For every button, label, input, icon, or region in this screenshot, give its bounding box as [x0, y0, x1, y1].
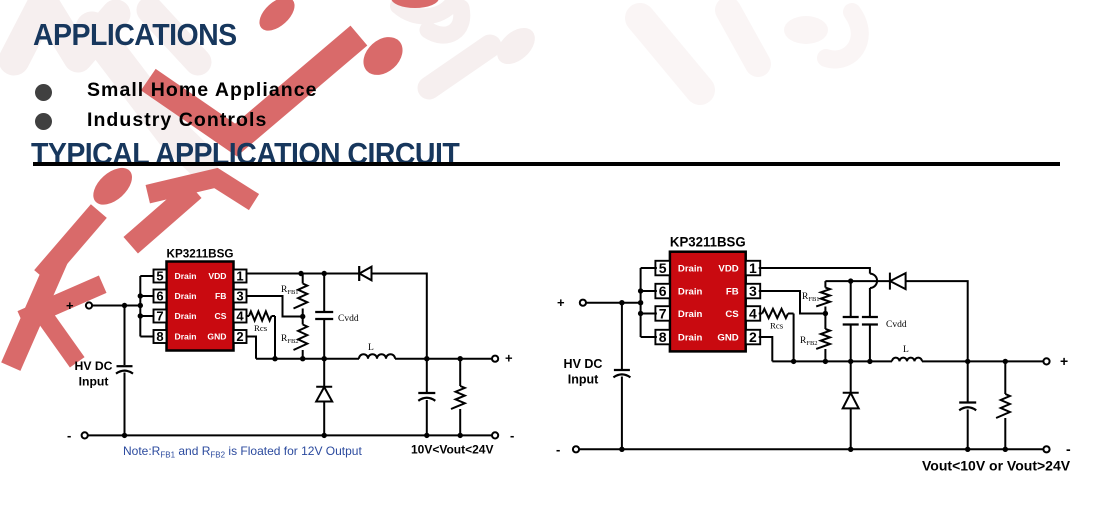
svg-text:-: - — [67, 428, 71, 443]
resistor Rcs right — [759, 309, 794, 318]
pin 4 box — [234, 309, 247, 324]
pin 6 box — [154, 289, 167, 304]
node junction Cvdd-mid — [322, 356, 327, 361]
pin 1 box — [234, 269, 247, 284]
terminal input + right — [580, 300, 586, 306]
svg-text:RFB2: RFB2 — [281, 334, 299, 345]
IC U1 KP3211BSG body — [167, 262, 234, 351]
svg-text:+: + — [1060, 353, 1068, 369]
svg-text:RFB1: RFB1 — [281, 285, 299, 296]
node junction bottom input — [122, 433, 127, 438]
svg-text:-: - — [556, 442, 560, 457]
wire input cap to bottom right — [621, 377, 623, 450]
heading rule — [33, 162, 1060, 166]
pin 4 box — [746, 306, 761, 322]
watermark red letter w low bar — [139, 197, 186, 238]
svg-text:CS: CS — [725, 309, 739, 320]
terminal input - right — [573, 446, 579, 452]
resistor R-load right ckt — [996, 361, 1010, 449]
node junction freewheel-bot — [322, 433, 327, 438]
svg-text:HV DCInput: HV DCInput — [564, 357, 603, 387]
node junction RFB2-mid — [300, 356, 305, 361]
wire freewheel bottom lead — [323, 402, 325, 436]
pin 8 box — [154, 329, 167, 344]
terminal input + — [86, 302, 92, 308]
node junction Cvdd2-mid right — [867, 359, 872, 364]
svg-text:Drain: Drain — [678, 287, 703, 298]
node junction bus input tee right — [638, 300, 643, 305]
wire VDD rail after diode — [372, 274, 427, 359]
wire stub pin5 right — [641, 267, 657, 269]
resistor RFB1 right — [816, 281, 830, 313]
svg-text:Drain: Drain — [678, 309, 703, 320]
diode D3 right ckt — [890, 273, 906, 290]
node junction CS-mid — [272, 356, 277, 361]
terminal input - — [82, 432, 88, 438]
wire stub pin5 — [140, 275, 154, 277]
diode D1 buck top — [359, 266, 371, 281]
bullet 1 — [35, 84, 52, 101]
svg-text:5: 5 — [156, 269, 163, 284]
wire Cout bottom lead right — [967, 410, 969, 450]
svg-text:1: 1 — [236, 269, 243, 284]
wire input cap branch — [124, 306, 126, 366]
node junction RFB2-mid right — [823, 359, 828, 364]
resistor R-load left ckt — [451, 359, 465, 436]
node junction FB divider mid right — [823, 311, 828, 316]
watermark red letter i2 dot — [253, 0, 300, 37]
IC U1 KP3211BSG body — [670, 252, 746, 352]
node junction Cout-bot — [424, 433, 429, 438]
svg-text:FB: FB — [215, 291, 226, 301]
wire Cout top lead — [426, 359, 428, 393]
wire HV + input — [89, 305, 140, 307]
capacitor C-out right — [959, 403, 976, 411]
wire mid rail after L — [395, 358, 495, 360]
node junction bus pin6 right — [638, 288, 643, 293]
wire GND pin down — [246, 337, 257, 359]
wire stub pin6 right — [641, 290, 657, 292]
svg-text:8: 8 — [156, 329, 163, 344]
diode D2 freewheel — [316, 387, 332, 402]
capacitor Cvdd1 — [843, 317, 859, 325]
node junction bus pin7 — [138, 313, 143, 318]
wire drain bus left ckt — [139, 276, 141, 337]
svg-text:Rcs: Rcs — [770, 321, 784, 331]
svg-text:VDD: VDD — [718, 264, 738, 275]
svg-text:4: 4 — [236, 309, 244, 324]
svg-text:+: + — [557, 295, 565, 310]
svg-text:GND: GND — [717, 333, 738, 344]
svg-text:7: 7 — [156, 309, 163, 324]
node junction bottom input right — [619, 447, 624, 452]
wire input cap branch right — [621, 303, 623, 369]
svg-text:3: 3 — [236, 289, 243, 304]
heading TYPICAL APPLICATION CIRCUIT — [31, 136, 459, 172]
inductor L2 — [892, 358, 922, 362]
node junction Dtop-mid — [424, 356, 429, 361]
wire Cvdd1 bottom lead — [850, 325, 852, 362]
svg-text:3: 3 — [749, 283, 757, 299]
wire freewheel top lead right — [850, 361, 852, 392]
watermark red letter w main V — [159, 44, 349, 140]
node junction input cap tap right — [619, 300, 624, 305]
watermark red letter i dot — [87, 161, 139, 212]
wire mid rail right ckt — [772, 360, 892, 362]
node junction freewheel-bot right — [848, 447, 853, 452]
pin 5 box — [655, 260, 670, 276]
svg-text:Drain: Drain — [175, 271, 197, 281]
svg-text:+: + — [505, 351, 513, 366]
node junction CS-mid right — [791, 359, 796, 364]
svg-text:10V<Vout<24V: 10V<Vout<24V — [411, 443, 494, 457]
svg-text:2: 2 — [749, 329, 757, 345]
svg-text:RFB1: RFB1 — [802, 292, 820, 303]
resistor Rcs — [246, 311, 276, 320]
svg-text:7: 7 — [659, 306, 667, 322]
node junction bus input tee — [138, 303, 143, 308]
wire GND pin down right — [759, 337, 773, 361]
heading APPLICATIONS — [33, 17, 237, 53]
wire stub pin7 right — [641, 313, 657, 315]
pin 2 box — [746, 329, 761, 345]
wire Cout top lead right — [967, 361, 969, 402]
svg-text:GND: GND — [207, 332, 226, 342]
svg-text:Note:RFB1 and RFB2 is Floated: Note:RFB1 and RFB2 is Floated for 12V Ou… — [123, 444, 362, 460]
capacitor C-in HV — [116, 366, 133, 373]
capacitor C-in HV right — [613, 370, 630, 377]
watermark light fragment top-left — [14, 2, 202, 162]
wire stub pin6 — [140, 295, 154, 297]
svg-text:6: 6 — [156, 289, 163, 304]
svg-text:+: + — [66, 298, 74, 313]
node junction Cout-bot right — [965, 447, 970, 452]
node junction load-bot — [458, 433, 463, 438]
inductor L1 — [359, 354, 395, 359]
node junction bus pin6 — [138, 293, 143, 298]
pin 7 box — [154, 309, 167, 324]
node junction load-bot right — [1003, 447, 1008, 452]
wire input cap to bottom rail — [124, 373, 126, 436]
svg-text:RFB2: RFB2 — [800, 336, 818, 347]
diode D4 freewheel right — [843, 393, 859, 409]
pin 6 box — [655, 283, 670, 299]
svg-text:KP3211BSG: KP3211BSG — [670, 234, 746, 250]
svg-text:Cvdd: Cvdd — [886, 320, 907, 330]
svg-text:Drain: Drain — [175, 311, 197, 321]
svg-text:Rcs: Rcs — [254, 323, 268, 333]
bullet item Industry Controls — [87, 109, 267, 132]
wire bottom rail left ckt — [85, 434, 495, 436]
svg-text:8: 8 — [659, 329, 667, 345]
watermark light fragment S dot and bar — [398, 4, 542, 88]
svg-text:FB: FB — [726, 287, 739, 298]
resistor RFB2 right — [816, 314, 830, 362]
node junction VDD-Cvdd — [322, 271, 327, 276]
svg-text:KP3211BSG: KP3211BSG — [167, 247, 234, 261]
wire CS branch down — [274, 316, 276, 359]
node junction FB divider mid — [300, 314, 305, 319]
wire VDD rail — [246, 273, 360, 275]
svg-text:-: - — [1066, 441, 1071, 457]
svg-text:2: 2 — [236, 329, 243, 344]
svg-text:4: 4 — [749, 306, 757, 322]
node junction bus pin7 right — [638, 311, 643, 316]
wire Cvdd bottom lead — [323, 319, 325, 358]
wire Cvdd top lead — [323, 274, 325, 312]
pin 1 box — [746, 260, 761, 276]
wire freewheel bottom lead right — [850, 408, 852, 449]
pin 8 box — [655, 329, 670, 345]
svg-text:Vout<10V or Vout>24V: Vout<10V or Vout>24V — [922, 458, 1071, 474]
watermark red letter K — [15, 268, 94, 357]
svg-text:Cvdd: Cvdd — [338, 314, 359, 324]
wire stub pin8 right — [641, 336, 657, 338]
pin 3 box — [234, 289, 247, 304]
wire VDD rail right ckt — [759, 268, 870, 274]
terminal out - — [492, 432, 498, 438]
node junction Cvdd1-mid right — [848, 359, 853, 364]
resistor RFB1 — [294, 274, 308, 317]
svg-text:Drain: Drain — [678, 333, 703, 344]
svg-text:Drain: Drain — [175, 332, 197, 342]
wire VDD to Cvdd2 — [869, 288, 871, 317]
node junction VDD-RFB1 — [298, 271, 303, 276]
wire after D3 to right drop — [906, 281, 968, 361]
node junction Cvdd1 top — [848, 278, 853, 283]
terminal out + right — [1043, 358, 1049, 364]
wire hop over FB wire — [870, 274, 877, 288]
wire stub pin8 — [140, 336, 154, 338]
terminal out - right — [1043, 446, 1049, 452]
wire FB pin to divider — [246, 296, 303, 317]
svg-text:-: - — [510, 428, 514, 443]
capacitor Cvdd — [315, 312, 333, 319]
watermark red letter i stem — [49, 219, 92, 269]
node junction load-mid — [458, 356, 463, 361]
wire divider top rail — [825, 280, 890, 282]
svg-text:Drain: Drain — [175, 291, 197, 301]
wire bottom rail right ckt — [576, 448, 1047, 450]
svg-text:6: 6 — [659, 283, 667, 299]
pin 3 box — [746, 283, 761, 299]
bullet 2 — [35, 113, 52, 130]
wire freewheel top lead — [323, 359, 325, 387]
svg-text:Drain: Drain — [678, 264, 703, 275]
wire drain bus right ckt — [640, 268, 642, 337]
node junction load-mid right — [1003, 359, 1008, 364]
wire FB pin to divider right — [759, 291, 826, 314]
svg-text:L: L — [368, 343, 374, 353]
capacitor Cvdd2 — [862, 317, 878, 325]
resistor RFB2 — [294, 317, 308, 359]
node junction drop-mid right — [965, 359, 970, 364]
svg-text:VDD: VDD — [208, 271, 226, 281]
watermark faint smudges top — [640, 10, 860, 90]
wire stub pin7 — [140, 315, 154, 317]
pin 7 box — [655, 306, 670, 322]
svg-text:CS: CS — [215, 311, 227, 321]
watermark red letter w chevron — [157, 178, 246, 197]
wire mid rail left ckt — [256, 358, 359, 360]
wire mid rail after L right — [922, 360, 1047, 362]
watermark red period — [356, 29, 410, 82]
wire CS branch down right — [793, 314, 795, 362]
wire HV + input right — [583, 302, 641, 304]
wire Cout bottom lead — [426, 400, 428, 435]
svg-text:1: 1 — [749, 260, 757, 276]
wire Cvdd1 branch — [850, 281, 852, 317]
pin 5 box — [154, 269, 167, 284]
svg-text:L: L — [903, 345, 909, 355]
wire Cvdd2 bottom lead — [869, 325, 871, 362]
capacitor C-out — [418, 393, 435, 401]
bullet item Small Home Appliance — [87, 79, 318, 102]
svg-text:5: 5 — [659, 260, 667, 276]
svg-text:HV DCInput: HV DCInput — [75, 359, 113, 389]
pin 2 box — [234, 329, 247, 344]
node junction input cap tap — [122, 303, 127, 308]
terminal out + — [492, 356, 498, 362]
watermark red S bottom tip — [391, 0, 439, 8]
